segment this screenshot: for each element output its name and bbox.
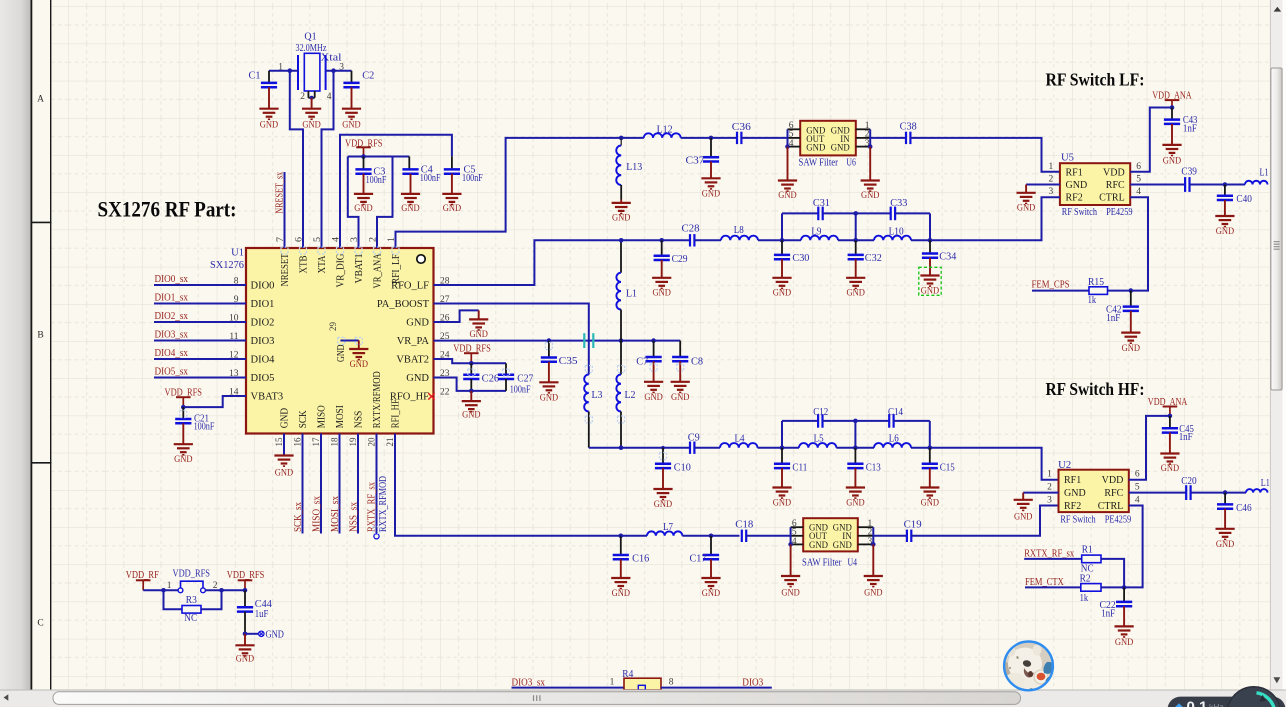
svg-text:GND: GND (462, 410, 480, 421)
wire (823, 420, 889, 422)
wire U5 RFC (1130, 184, 1185, 186)
capacitor C8 (679, 341, 681, 357)
svg-text:L1: L1 (1260, 167, 1269, 178)
svg-text:MISO: MISO (316, 405, 327, 428)
junction (853, 419, 858, 424)
svg-text:RF2: RF2 (1064, 501, 1081, 512)
wire HF chain (589, 447, 690, 449)
svg-text:VDD_RFS: VDD_RFS (453, 344, 491, 355)
power port VDD_RFS (464, 353, 479, 363)
ground (1215, 216, 1234, 237)
wire DIO4 (154, 358, 246, 360)
svg-text:C2: C2 (362, 70, 374, 81)
svg-text:GND: GND (612, 213, 630, 224)
svg-text:GND: GND (236, 653, 254, 664)
junction (1122, 585, 1127, 590)
wire U5 VDD (1130, 108, 1172, 172)
svg-text:5: 5 (792, 528, 797, 538)
wire C38 to U5 (910, 138, 1060, 172)
capacitor C32 (855, 240, 857, 255)
svg-text:FEM_CPS: FEM_CPS (1032, 280, 1070, 291)
junction (469, 361, 474, 366)
svg-text:1uF: 1uF (255, 609, 269, 620)
ground (701, 178, 720, 199)
svg-text:GND: GND (809, 541, 828, 551)
U6 pin 2 (856, 137, 870, 139)
ground (652, 278, 671, 299)
capacitor C44 (244, 590, 246, 607)
svg-text:2: 2 (868, 528, 873, 538)
wire (823, 212, 891, 214)
svg-text:GND: GND (1163, 155, 1181, 166)
wire pin29 to ground (340, 340, 358, 342)
svg-text:GND: GND (279, 408, 290, 429)
wire (911, 448, 1059, 480)
svg-text:GND: GND (846, 498, 864, 509)
wire RFI_HF (395, 434, 621, 536)
svg-text:PE4259: PE4259 (1105, 514, 1132, 525)
ground (1162, 145, 1181, 166)
inductor L13 (620, 138, 622, 146)
junction (928, 445, 933, 450)
svg-text:SAW Filter: SAW Filter (802, 557, 842, 568)
svg-text:L7: L7 (663, 522, 673, 533)
junction (853, 445, 858, 450)
ground (787, 147, 789, 181)
svg-text:GND: GND (1161, 463, 1179, 474)
svg-text:B: B (37, 331, 43, 341)
svg-text:R15: R15 (1088, 277, 1104, 288)
selection box (919, 267, 941, 295)
junction (788, 542, 793, 547)
svg-text:DIO2: DIO2 (251, 318, 275, 329)
wire (1032, 290, 1089, 292)
wire crystal pin1 (269, 70, 298, 72)
ground (644, 382, 663, 403)
svg-text:DIO4_sx: DIO4_sx (155, 348, 189, 359)
svg-text:RXTX_RF_sx: RXTX_RF_sx (366, 482, 377, 532)
svg-text:GND: GND (847, 288, 865, 299)
svg-text:VDD: VDD (1103, 167, 1125, 178)
svg-text:3: 3 (1049, 187, 1054, 197)
svg-text:U4: U4 (848, 557, 858, 568)
inductor L3 (584, 375, 589, 412)
ground (611, 578, 630, 599)
wire (1191, 492, 1246, 494)
wire VDD_RFS rail (348, 156, 410, 158)
inductor L8 (721, 236, 758, 241)
svg-text:GND: GND (174, 454, 192, 465)
svg-text:5: 5 (1136, 175, 1141, 185)
wire VR_PA (434, 340, 681, 342)
SAW filter U6 body (800, 121, 856, 156)
wire (894, 420, 930, 422)
wire HF bypass (782, 420, 818, 422)
svg-text:GND: GND (275, 468, 293, 479)
svg-text:GND: GND (833, 541, 852, 551)
junction (161, 588, 166, 593)
inductor L5 (799, 443, 836, 448)
U6 pin 4 (788, 146, 801, 148)
svg-text:C34: C34 (939, 252, 956, 263)
svg-text:100nF: 100nF (194, 422, 215, 433)
svg-text:2: 2 (865, 130, 870, 140)
junction (619, 534, 624, 539)
svg-text:100nF: 100nF (366, 175, 387, 186)
wire (1024, 558, 1082, 560)
U4 pin 6 (791, 526, 804, 528)
junction (853, 211, 858, 216)
wire pin16 SCK (302, 434, 304, 534)
capacitor C7 (653, 341, 655, 357)
svg-text:C15: C15 (940, 462, 955, 473)
ground (920, 488, 939, 509)
svg-text:C30: C30 (792, 253, 809, 264)
wire pin18 MOSI (339, 434, 341, 534)
svg-text:SAW Filter: SAW Filter (799, 157, 839, 168)
svg-text:GND: GND (773, 288, 791, 299)
capacitor C10 (662, 448, 664, 464)
wire pin23 (434, 378, 507, 391)
svg-text:VR_PA: VR_PA (397, 336, 430, 347)
svg-text:C9: C9 (688, 432, 700, 443)
svg-text:C: C (37, 619, 43, 629)
wire pin17 MISO (320, 434, 322, 534)
wire VR_DIG to C5 (340, 135, 452, 248)
junction (619, 136, 624, 141)
inductor L7 (647, 531, 682, 535)
U6 pin 6 (788, 128, 801, 130)
svg-text:DIO3: DIO3 (742, 677, 763, 688)
svg-text:1: 1 (1047, 470, 1052, 480)
junction (780, 238, 785, 243)
wire U6 left bus (787, 129, 789, 146)
power port VDD_ANA (1163, 407, 1178, 416)
svg-text:VBAT3: VBAT3 (251, 392, 284, 403)
svg-text:Q1: Q1 (304, 31, 316, 42)
svg-text:L6: L6 (889, 434, 899, 445)
wire PA_BOOST (434, 304, 589, 375)
junction (243, 632, 248, 637)
svg-text:C12: C12 (813, 407, 828, 418)
svg-text:1: 1 (1049, 162, 1054, 172)
svg-text:C17: C17 (690, 553, 707, 564)
wire VBAT3 (183, 396, 246, 407)
wire (621, 137, 644, 139)
svg-text:4: 4 (1136, 187, 1141, 197)
wire (661, 687, 772, 689)
svg-text:GND: GND (354, 203, 372, 214)
svg-text:R2: R2 (1080, 573, 1091, 584)
junction (310, 96, 314, 100)
svg-text:GND: GND (1066, 180, 1088, 191)
wire U2 CTRL (1124, 506, 1143, 588)
capacitor C16 (620, 536, 622, 555)
svg-text:L2: L2 (625, 390, 636, 401)
junction (651, 338, 656, 343)
svg-text:C27: C27 (517, 374, 533, 385)
svg-text:DIO3_sx: DIO3_sx (155, 330, 189, 341)
power port VDD_RFS (356, 147, 371, 156)
ground (342, 109, 361, 131)
junction (871, 542, 876, 547)
ground (872, 544, 874, 576)
svg-text:VDD_ANA: VDD_ANA (1148, 397, 1188, 408)
resistor R2 (1081, 584, 1101, 592)
capacitor C13 (854, 448, 856, 464)
wire VBAT2 (434, 359, 507, 363)
wire RFI_LF (396, 138, 622, 248)
svg-text:C46: C46 (1236, 503, 1252, 514)
U6 pin 3 (856, 146, 870, 148)
inductor L9 (801, 236, 838, 241)
svg-text:DIO1_sx: DIO1_sx (155, 293, 189, 304)
capacitor C36 (737, 132, 741, 144)
svg-text:GND: GND (806, 143, 825, 153)
wire (838, 239, 874, 241)
capacitor C6 series coupling (584, 333, 593, 348)
wire pin26 GND (434, 310, 479, 322)
ground (869, 147, 871, 181)
power port VDD_RF (136, 580, 151, 590)
svg-text:DIO5_sx: DIO5_sx (155, 367, 189, 378)
connection markers (180, 247, 684, 534)
wire LF chain (621, 239, 690, 241)
capacitor C33 (891, 207, 895, 221)
wire RFO_LF (434, 240, 622, 285)
wire DIO2 (154, 321, 246, 323)
wire DIO0 (154, 284, 246, 286)
svg-text:GND: GND (1064, 488, 1086, 499)
ground (620, 200, 622, 203)
wire U2 RFC (1129, 492, 1186, 494)
svg-text:SX1276: SX1276 (210, 260, 244, 271)
svg-text:4: 4 (1135, 496, 1140, 506)
inductor L4 (720, 443, 758, 448)
wire VR_ANA (377, 157, 393, 249)
RF switch U2 body (1059, 470, 1129, 512)
svg-text:VDD_RFS: VDD_RFS (165, 387, 203, 398)
svg-text:XTB: XTB (298, 256, 309, 274)
svg-text:RF1: RF1 (1064, 475, 1081, 486)
wire (694, 447, 720, 449)
wire (1101, 586, 1124, 588)
capacitor C38 (906, 132, 910, 144)
U4 pin 4 (791, 543, 804, 545)
ground (259, 109, 278, 131)
capacitor C46 (1224, 493, 1226, 505)
wire (621, 535, 647, 537)
svg-text:GND: GND (1014, 512, 1032, 523)
capacitor C30 (781, 240, 783, 255)
resistor R1 (1082, 555, 1101, 563)
wire riser (929, 213, 931, 240)
ground (671, 382, 690, 403)
svg-text:MISO_sx: MISO_sx (312, 496, 323, 532)
svg-text:C19: C19 (904, 520, 922, 531)
svg-text:NSS: NSS (353, 411, 364, 429)
svg-text:GND: GND (401, 203, 419, 214)
svg-text:DIO0_sx: DIO0_sx (155, 274, 189, 285)
svg-text:C36: C36 (732, 122, 751, 133)
ground (354, 194, 373, 214)
IC U1 SX1276 body (246, 248, 434, 434)
RF switch U5 body (1060, 163, 1130, 205)
ground (174, 444, 193, 465)
svg-text:C8: C8 (691, 357, 703, 368)
resistor R15 (1089, 287, 1108, 295)
wire (758, 447, 800, 449)
svg-text:CTRL: CTRL (1099, 193, 1125, 204)
bottom horizontal scrollbar (0, 690, 1286, 707)
svg-text:GND: GND (1216, 226, 1234, 237)
svg-text:U6: U6 (846, 157, 856, 168)
ground (846, 278, 865, 299)
svg-text:C37: C37 (686, 156, 705, 167)
svg-text:L3: L3 (592, 390, 603, 401)
ground (1121, 333, 1140, 354)
capacitor C15 (929, 448, 931, 464)
svg-text:2: 2 (300, 92, 305, 102)
junction (331, 68, 336, 73)
capacitor C21 (182, 407, 184, 419)
svg-text:6: 6 (1135, 470, 1140, 480)
wire NRESET (284, 172, 286, 248)
inductor L1 (620, 242, 622, 273)
svg-text:GND: GND (336, 344, 347, 362)
svg-text:GND: GND (702, 188, 720, 199)
U1 pin 29 internal GND (329, 322, 347, 362)
svg-text:SCK_sx: SCK_sx (293, 502, 304, 532)
no-connect marker pin 22 (428, 393, 434, 399)
junction (547, 338, 552, 343)
svg-text:6: 6 (1136, 162, 1141, 172)
svg-text:100nF: 100nF (420, 173, 441, 184)
zoom level knob widget (1168, 687, 1286, 707)
junction (288, 68, 293, 73)
capacitor C9 (690, 442, 694, 454)
svg-text:1nF: 1nF (1101, 609, 1115, 620)
svg-text:1k: 1k (1088, 295, 1097, 306)
wire (742, 137, 788, 139)
ground (470, 391, 472, 401)
svg-text:GND: GND (342, 119, 360, 130)
wire (201, 590, 222, 609)
svg-text:VDD_RFS: VDD_RFS (173, 568, 211, 579)
svg-text:RXTX/RFMOD: RXTX/RFMOD (372, 371, 383, 428)
wire U6 right bus (869, 129, 871, 146)
capacitor C29 (661, 240, 663, 255)
capacitor C28 (690, 234, 694, 246)
power port VDD_RFS (238, 580, 253, 590)
ground (1022, 493, 1024, 500)
svg-text:8: 8 (669, 677, 674, 687)
ground (701, 578, 720, 599)
svg-text:C10: C10 (674, 462, 691, 473)
junction (709, 534, 714, 539)
svg-text:C14: C14 (888, 407, 903, 418)
capacitor C11 (781, 448, 783, 464)
svg-text:kHz: kHz (1209, 702, 1224, 707)
svg-text:5: 5 (1135, 483, 1140, 493)
wire (1025, 586, 1081, 588)
capacitor C19 (907, 530, 911, 542)
wire XTB (290, 71, 303, 248)
svg-text:L10: L10 (889, 227, 904, 238)
svg-text:C20: C20 (1181, 476, 1197, 487)
svg-text:1nF: 1nF (1106, 313, 1120, 324)
svg-text:GND: GND (861, 190, 879, 201)
svg-text:1: 1 (610, 677, 615, 687)
svg-text:GND: GND (266, 629, 284, 640)
svg-text:VDD_ANA: VDD_ANA (1152, 90, 1192, 101)
svg-text:SCK: SCK (298, 410, 309, 428)
ground (469, 319, 488, 340)
wire (911, 197, 1060, 240)
svg-text:C13: C13 (866, 462, 881, 473)
svg-text:C16: C16 (632, 553, 649, 564)
inductor L1 (1246, 489, 1267, 493)
junction (243, 588, 248, 593)
ground (653, 489, 672, 510)
capacitor C1 (268, 71, 270, 83)
avatar photo badge (1003, 640, 1055, 696)
svg-text:L9: L9 (811, 227, 821, 238)
crystal Q1 (278, 31, 344, 102)
jumper VDD_RFS (167, 568, 218, 592)
svg-text:L1: L1 (1261, 478, 1270, 489)
wire (512, 687, 625, 689)
wire DIO1 (154, 303, 246, 305)
junction (619, 338, 624, 343)
svg-text:L1: L1 (626, 289, 637, 300)
svg-text:GND: GND (654, 499, 672, 510)
svg-text:GND: GND (1017, 203, 1035, 214)
capacitor C3 (363, 157, 365, 170)
svg-text:DIO4: DIO4 (251, 355, 276, 366)
ground (790, 544, 792, 576)
capacitor C42 (1130, 291, 1132, 307)
svg-text:NC: NC (184, 613, 197, 624)
ground (244, 634, 246, 646)
svg-text:C33: C33 (890, 198, 907, 209)
svg-text:VR_DIG: VR_DIG (335, 253, 346, 287)
ground (442, 194, 461, 214)
capacitor C17 (710, 536, 712, 555)
ground (401, 194, 420, 214)
svg-text:L5: L5 (814, 434, 824, 445)
junction (780, 445, 785, 450)
wire pin20 stub (376, 434, 378, 534)
svg-text:NRESET: NRESET (280, 253, 291, 286)
svg-text:U2: U2 (1058, 460, 1071, 471)
resistor R3 (182, 606, 201, 614)
wire U2 VDD (1129, 416, 1170, 480)
capacitor C14 (889, 414, 893, 428)
svg-text:VDD_RFS: VDD_RFS (227, 570, 264, 581)
svg-text:GND: GND (831, 143, 850, 153)
left gray panel (0, 0, 31, 690)
ground (1115, 626, 1134, 648)
U6 pin 5 (788, 137, 801, 139)
wire U4 right bus (872, 527, 874, 544)
wire riser (781, 213, 783, 240)
svg-text:GND: GND (773, 498, 791, 509)
svg-text:RFI_LF: RFI_LF (391, 254, 402, 284)
svg-text:DIO3: DIO3 (251, 336, 275, 347)
power port VDD_RFS (176, 397, 191, 407)
svg-text:VDD_RF: VDD_RF (126, 570, 159, 581)
